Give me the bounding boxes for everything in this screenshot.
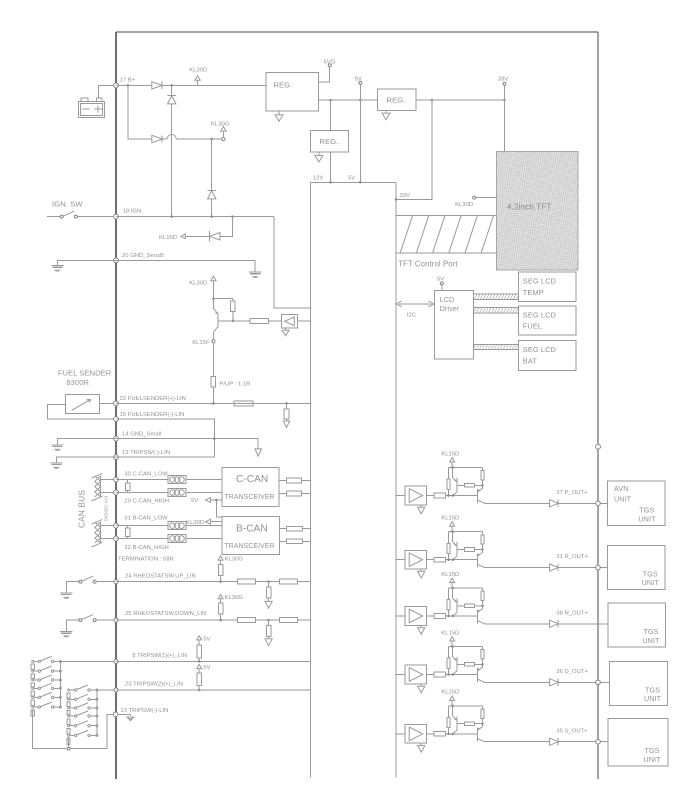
svg-text:24 RHEOSTATSW.UP_LIN: 24 RHEOSTATSW.UP_LIN	[125, 574, 196, 580]
switch rheostat up	[66, 582, 79, 593]
svg-text:25 RHEOSTATSW.DOWN_LIN: 25 RHEOSTATSW.DOWN_LIN	[125, 611, 206, 617]
terminal KL30G pullup line 24	[218, 556, 223, 560]
node KL30D rail	[170, 84, 173, 87]
node 5V supply branch	[215, 499, 218, 502]
battery BAT	[79, 101, 105, 117]
transistor Q1 KL15F switch	[217, 313, 219, 327]
bus TFT control port hatch	[396, 214, 496, 216]
trip switch output bus	[96, 690, 98, 735]
wire REG1 output rail	[319, 99, 378, 101]
wire diode to unit row 1	[558, 502, 607, 504]
svg-text:UNIT: UNIT	[643, 755, 661, 764]
svg-text:30 C-CAN_LOW: 30 C-CAN_LOW	[124, 472, 168, 478]
wire diode to unit row 4	[558, 681, 610, 683]
voltage regulator REG1	[266, 73, 319, 111]
wire line 22 to MCU	[116, 402, 311, 404]
microcontroller block top edge	[311, 181, 396, 183]
diode D2 clamp vertical	[171, 85, 173, 95]
svg-text:KL15D: KL15D	[159, 235, 177, 241]
svg-text:37 P_OUT+: 37 P_OUT+	[556, 490, 588, 496]
wire buffer input row 2	[396, 559, 405, 561]
svg-text:13 TRIPSW(-)-LIN: 13 TRIPSW(-)-LIN	[120, 708, 168, 714]
ground under REG1	[278, 111, 280, 115]
svg-text:D4D3D2 #19: D4D3D2 #19	[104, 495, 109, 521]
fuel sender variable resistor	[65, 394, 99, 413]
node 33V TFT tap	[503, 99, 506, 102]
resistor base row 4	[457, 663, 465, 665]
ground under buffer U2	[285, 328, 287, 330]
resistor bias right row 5	[482, 706, 484, 709]
wire output row 1	[485, 502, 550, 504]
ground earth left of line 20	[51, 265, 63, 267]
node pullup line 24	[219, 580, 222, 583]
wire KL30D to node	[212, 281, 214, 299]
cluster module boundary top edge	[116, 31, 598, 33]
pin output row 2	[596, 565, 601, 570]
resistor pullup 5V line 8	[198, 640, 200, 645]
unit box TGS	[608, 719, 668, 766]
svg-text:UNIT: UNIT	[642, 636, 660, 645]
trip switch output bus	[59, 661, 61, 707]
ground under buffer U3	[420, 625, 422, 627]
wire GND_SensB left	[57, 260, 116, 265]
diode D4 KL30G to IGN	[211, 139, 213, 190]
svg-text:36 D_OUT+: 36 D_OUT+	[556, 669, 588, 675]
diode D5 KL15D feed	[220, 217, 233, 237]
wire KL15F down to pullup	[212, 343, 214, 376]
resistor bias left row 4	[448, 647, 450, 659]
wire 33V MCU stub	[396, 198, 432, 200]
svg-text:SEG LCD: SEG LCD	[523, 277, 556, 286]
microcontroller block left edge	[310, 182, 312, 777]
svg-text:TEMP: TEMP	[523, 288, 544, 297]
diode output row 3	[550, 620, 559, 627]
svg-text:FUEL: FUEL	[523, 322, 542, 331]
node base junction	[232, 320, 235, 323]
svg-text:KL30D: KL30D	[189, 281, 207, 287]
pin on right border	[596, 444, 601, 449]
resistor B-CAN TX out	[280, 528, 287, 530]
wire base drive row 1	[446, 495, 478, 497]
node 5V rail tap	[359, 99, 362, 102]
svg-text:TERMINATION : 58R: TERMINATION : 58R	[118, 556, 174, 562]
resistor buffer out row 2	[427, 559, 434, 561]
wire battery to pin 17	[99, 85, 116, 98]
svg-text:23 TRIPSW(2)(+)_LIN: 23 TRIPSW(2)(+)_LIN	[125, 682, 183, 688]
resistor base pullup	[231, 301, 236, 311]
pin 32 B-CAN_HIGH	[114, 536, 119, 541]
ground under divider line 25	[265, 639, 272, 646]
node battery feed	[127, 84, 130, 87]
LCD driver U5	[434, 291, 473, 360]
diode D3 to KL30G	[152, 135, 162, 142]
resistor B-CAN RX out	[280, 540, 287, 542]
svg-text:8 TRIPSW(1)(+)_LIN: 8 TRIPSW(1)(+)_LIN	[132, 653, 187, 659]
resistor series line 22	[234, 401, 253, 406]
display SEG LCD BAT	[518, 341, 576, 371]
resistor base row 1	[457, 484, 465, 486]
transistor Q4b	[476, 668, 478, 682]
node base net row 2	[481, 548, 484, 551]
svg-text:AVN: AVN	[614, 484, 629, 493]
wire output row 4	[485, 681, 550, 683]
node divider line 24	[267, 580, 270, 583]
wire line 15 to common	[116, 419, 214, 457]
svg-text:38 N_OUT+: 38 N_OUT+	[556, 611, 588, 617]
wire line 32	[116, 538, 222, 540]
trip switch resistor ladder	[32, 660, 34, 662]
cluster module boundary right edge	[597, 32, 599, 779]
trip switch resistor ladder	[68, 689, 70, 691]
resistor pullup KL30G line 24	[220, 560, 222, 564]
svg-text:KL30G: KL30G	[225, 556, 244, 562]
svg-text:KL30D: KL30D	[455, 202, 473, 208]
node pullup on line 22	[212, 402, 215, 405]
svg-text:TRANSCEIVER: TRANSCEIVER	[225, 494, 275, 501]
wire GND_SensB right	[116, 260, 255, 272]
svg-text:17 B+: 17 B+	[120, 78, 136, 84]
bus LCD to SEG TEMP	[473, 294, 518, 299]
diode output row 5	[550, 738, 559, 745]
svg-text:IGN. SW: IGN. SW	[52, 199, 83, 208]
pin 22 FUELSENDER(+)-LIN	[114, 401, 119, 406]
wire buffer U2 to MCU	[298, 320, 311, 322]
node IGN-D4	[210, 215, 213, 218]
wire base drive row 2	[446, 559, 478, 561]
svg-text:KL30G: KL30G	[211, 122, 230, 128]
svg-text:20 GND_SensB: 20 GND_SensB	[122, 253, 164, 259]
pin 30 C-CAN_LOW	[114, 477, 119, 482]
pin 8 TRIPSW(1)(+)_LIN	[114, 659, 118, 663]
pin 13 TRIPSW(-)-LIN lower	[113, 712, 118, 717]
ground under line 22 divider	[283, 421, 289, 428]
svg-text:CAN BUS: CAN BUS	[78, 490, 87, 528]
resistor base row 3	[457, 605, 465, 607]
svg-text:14 GND_Small: 14 GND_Small	[122, 431, 161, 437]
diode output row 4	[550, 679, 559, 686]
pin 14 GND_Small	[114, 436, 119, 441]
wire node to base resistor	[213, 298, 233, 300]
pin 20 GND_SensB	[114, 258, 119, 263]
resistor buffer out row 5	[427, 733, 434, 735]
transistor Q2a	[452, 532, 454, 542]
node pullup line 25	[219, 619, 222, 622]
svg-text:LCD: LCD	[440, 295, 455, 304]
wire line 24	[116, 581, 238, 583]
pin 17 B+	[114, 83, 119, 88]
svg-text:33V: 33V	[498, 77, 509, 83]
choke common-mode B-CAN low	[168, 522, 186, 530]
unit box TGS	[607, 546, 665, 590]
node 33V to MCU tap	[431, 99, 434, 102]
choke common-mode C-CAN high	[168, 489, 186, 497]
node base net row 3	[481, 605, 484, 608]
svg-text:KL30D: KL30D	[189, 68, 207, 74]
display SEG LCD TEMP	[518, 272, 576, 302]
unit box TGS	[610, 661, 668, 705]
wire REG1 to 5VG	[319, 67, 330, 82]
resistor bias right row 2	[482, 532, 484, 535]
wire REG2 input drop	[330, 100, 332, 131]
svg-text:31 R_OUT+: 31 R_OUT+	[556, 554, 588, 560]
resistor buffer out row 1	[427, 495, 434, 497]
twisted pair C-CAN	[100, 476, 102, 497]
svg-text:KL30G: KL30G	[225, 595, 244, 601]
wire line 13 lower to ground	[118, 713, 131, 715]
wire line 31	[116, 525, 222, 527]
node pullup line 23	[198, 689, 201, 692]
wire base drive row 5	[446, 733, 478, 735]
pin 18 IGN	[114, 214, 119, 219]
resistor base drive	[250, 319, 269, 324]
svg-text:TGS: TGS	[644, 746, 659, 755]
bus LCD to SEG FUEL	[473, 308, 518, 313]
svg-text:5V: 5V	[203, 665, 210, 671]
svg-text:TGS: TGS	[639, 505, 654, 514]
twisted pair B-CAN	[100, 522, 102, 543]
resistor base row 2	[457, 549, 465, 551]
wire line 29	[116, 492, 222, 494]
wire line 30	[116, 479, 222, 481]
pin 25 RHEOSTATSW.DOWN_LIN	[114, 618, 118, 622]
svg-text:35 S_OUT+: 35 S_OUT+	[556, 728, 588, 734]
voltage regulator REG2	[311, 131, 349, 153]
wire IGN to MCU	[274, 217, 311, 309]
wire diode to unit row 5	[558, 741, 608, 743]
trip switch blades	[34, 660, 38, 662]
resistor bias left row 5	[448, 706, 450, 718]
svg-text:TGS: TGS	[643, 569, 658, 578]
ground under buffer U2	[420, 569, 422, 571]
svg-text:TGS: TGS	[645, 685, 660, 694]
op-amp buffer U2	[405, 550, 426, 569]
transistor Q5a	[452, 706, 454, 716]
unit box AVN/TGS	[607, 481, 665, 525]
wire D1 to REG input	[162, 84, 266, 86]
svg-text:REG.: REG.	[387, 96, 406, 105]
rail KL15D row 2	[449, 531, 483, 533]
svg-text:KL15D: KL15D	[441, 451, 459, 457]
wire base drive	[233, 320, 250, 322]
transistor Q1a	[452, 468, 454, 478]
wire output row 3	[485, 623, 550, 625]
wire REG2 output 12V to MCU	[330, 152, 332, 182]
voltage regulator REG3	[378, 89, 416, 110]
svg-text:SEG LCD: SEG LCD	[523, 345, 556, 354]
diode output row 1	[550, 500, 559, 507]
wire pair to pins 30 29	[101, 479, 116, 481]
node line 14 common	[213, 437, 216, 440]
svg-text:22 FUELSENDER(+)-LIN: 22 FUELSENDER(+)-LIN	[120, 396, 186, 402]
ground earth line 14	[51, 444, 63, 446]
wire IGN line	[116, 216, 274, 218]
wire line 14	[116, 438, 214, 440]
transistor Q2b	[476, 553, 478, 567]
resistor buffer out row 4	[427, 674, 434, 676]
rail KL15D row 5	[449, 705, 483, 707]
wire battery to second diode	[128, 85, 152, 139]
svg-text:FUEL SENDER: FUEL SENDER	[58, 368, 112, 377]
svg-text:KL15D: KL15D	[441, 690, 459, 696]
resistor series1 line 25	[238, 618, 256, 623]
wire output row 2	[485, 567, 550, 569]
resistor bias right row 1	[482, 468, 484, 471]
svg-text:KL15D: KL15D	[441, 630, 459, 636]
transistor Q3b	[476, 610, 478, 624]
svg-text:UNIT: UNIT	[614, 495, 632, 504]
B-CAN transceiver U4	[222, 517, 279, 555]
svg-text:I2C: I2C	[407, 313, 417, 319]
ground under REG3	[385, 110, 387, 113]
wire output row 5	[485, 741, 550, 743]
pin output row 1	[596, 501, 601, 506]
rail KL15D row 4	[449, 646, 483, 648]
unit box TGS	[608, 603, 666, 647]
node base net row 4	[481, 663, 484, 666]
resistor pullup KL30G line 25	[220, 599, 222, 603]
node divider line 22	[285, 402, 288, 405]
wire REG3 output 33V rail	[416, 99, 505, 101]
terminal KL30G pullup line 25	[218, 595, 223, 599]
ground under line 14	[255, 449, 261, 456]
choke common-mode B-CAN high	[168, 535, 186, 543]
wire line 14 left to ground	[57, 439, 116, 445]
svg-text:32 B-CAN_HIGH: 32 B-CAN_HIGH	[124, 545, 169, 551]
svg-text:C-CAN: C-CAN	[236, 474, 268, 485]
display 4.2inch TFT	[496, 152, 578, 270]
transistor Q3a	[452, 588, 454, 598]
svg-text:TFT Control Port: TFT Control Port	[398, 259, 458, 268]
wire diode to unit row 2	[558, 567, 607, 569]
resistor bias left row 2	[448, 532, 450, 544]
resistor divider to ground line 22	[286, 403, 288, 409]
pin 24 RHEOSTATSW.UP_LIN	[114, 580, 118, 584]
wire line 23 to MCU	[116, 689, 311, 691]
svg-text:29 C-CAN_HIGH: 29 C-CAN_HIGH	[124, 498, 169, 504]
pin 15 FUELSENDER(-)-LIN	[114, 417, 119, 422]
pin output row 5	[596, 739, 601, 744]
pin output row 4	[596, 680, 601, 685]
terminal KL30G end circle	[222, 137, 225, 140]
wire D2 to IGN line	[171, 104, 173, 217]
svg-text:5V: 5V	[203, 636, 210, 642]
resistor pullup 5V line 23	[198, 669, 200, 673]
terminal 5V pullup line 8	[197, 636, 202, 640]
display SEG LCD FUEL	[518, 306, 576, 335]
node IGN-D2	[170, 215, 173, 218]
wire sender plus to pin 22	[99, 402, 116, 404]
wire 8 bank1 to pin	[60, 660, 116, 662]
wire line 25	[116, 619, 238, 621]
svg-text:5V: 5V	[437, 277, 444, 283]
terminal 5V pullup line 23	[197, 664, 202, 668]
wire base drive row 4	[446, 674, 478, 676]
svg-text:REG.: REG.	[273, 81, 292, 90]
svg-text:5V: 5V	[348, 175, 355, 181]
wire line 8 to MCU	[116, 660, 311, 662]
wire D3 to KL30G with wire hop	[162, 138, 167, 140]
svg-text:15 FUELSENDER(-)-LIN: 15 FUELSENDER(-)-LIN	[120, 412, 185, 418]
resistor termination B-CAN	[127, 526, 129, 529]
svg-text:12V: 12V	[313, 175, 324, 181]
node REG2 input tap	[329, 99, 332, 102]
ground under REG2	[318, 152, 320, 155]
svg-text:33V: 33V	[400, 193, 411, 199]
wire 5V rail to MCU	[359, 84, 361, 182]
svg-text:5V: 5V	[191, 498, 198, 504]
wire line 14 to ground	[214, 439, 258, 449]
wire 33V to TFT	[504, 85, 506, 100]
wire 33V drop to MCU	[431, 100, 433, 199]
svg-text:13 TRIPSW(-)-LIN: 13 TRIPSW(-)-LIN	[122, 450, 170, 456]
ground under buffer U1	[420, 505, 422, 507]
pin 13 TRIPSW(-)-LIN upper	[114, 455, 119, 460]
resistor C-CAN RX out	[279, 493, 286, 495]
bus LCD to SEG BAT	[473, 344, 518, 349]
transistor Q1b	[476, 489, 478, 503]
wire 23 bank2 to pin	[97, 689, 116, 691]
choke common-mode C-CAN low	[168, 476, 186, 484]
connector arrow KL15D	[185, 235, 209, 237]
rail KL15D row 3	[449, 587, 483, 589]
svg-text:UNIT: UNIT	[644, 694, 662, 703]
svg-text:Driver: Driver	[440, 304, 460, 313]
wire base drive row 3	[446, 615, 478, 617]
C-CAN transceiver U3	[222, 467, 279, 506]
node IGN-KL15D branch	[231, 215, 234, 218]
pin 31 B-CAN_LOW	[114, 523, 119, 528]
transistor Q4a	[452, 647, 454, 657]
node base net row 1	[481, 484, 484, 487]
resistor series1 line 24	[238, 579, 256, 584]
svg-text:18 IGN.: 18 IGN.	[123, 209, 144, 215]
op-amp buffer U1	[405, 486, 426, 505]
svg-text:KL30D: KL30D	[186, 520, 204, 526]
op-amp buffer U3	[405, 607, 426, 626]
ground earth line 13	[50, 462, 62, 464]
svg-text:REG.: REG.	[320, 137, 339, 146]
ground under divider line 24	[265, 601, 272, 608]
resistor series2 line 24	[279, 579, 297, 584]
ground under buffer U4	[420, 684, 422, 686]
node base net row 5	[481, 722, 484, 725]
resistor termination C-CAN	[127, 480, 129, 483]
svg-text:B-CAN: B-CAN	[236, 523, 268, 534]
ground earth right of line 20	[249, 271, 261, 273]
diode output row 2	[550, 564, 559, 571]
ground earth rheostat up	[60, 592, 72, 594]
switch rheostat down	[66, 620, 79, 631]
op-amp buffer U5	[405, 725, 426, 744]
svg-text:KL15F: KL15F	[192, 340, 210, 346]
resistor bias right row 4	[482, 647, 484, 650]
node divider line 25	[267, 619, 270, 622]
svg-text:UNIT: UNIT	[638, 514, 656, 523]
resistor bias right row 3	[482, 588, 484, 591]
wire base to resistor	[218, 320, 233, 322]
wire bank1 ladder bottom	[32, 710, 34, 748]
wire B+ to diode	[116, 84, 152, 86]
node pullup line 8	[198, 660, 201, 663]
buffer U2 ignition sense	[282, 315, 298, 328]
svg-text:TRANSCEIVER: TRANSCEIVER	[225, 543, 275, 550]
wire buffer input row 3	[396, 615, 405, 617]
resistor divider down line 24	[268, 582, 270, 588]
resistor series2 line 25	[279, 618, 297, 623]
diode D1 battery feed	[152, 82, 162, 89]
svg-text:4.2inch TFT: 4.2inch TFT	[507, 203, 552, 212]
wire buffer input row 4	[396, 674, 405, 676]
